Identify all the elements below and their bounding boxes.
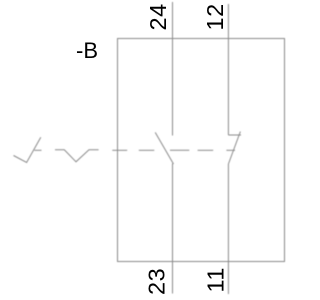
svg-text:24: 24 <box>145 3 171 30</box>
svg-text:11: 11 <box>202 267 228 292</box>
svg-text:12: 12 <box>202 3 228 30</box>
svg-text:23: 23 <box>143 268 169 295</box>
svg-text:-B: -B <box>76 38 98 63</box>
